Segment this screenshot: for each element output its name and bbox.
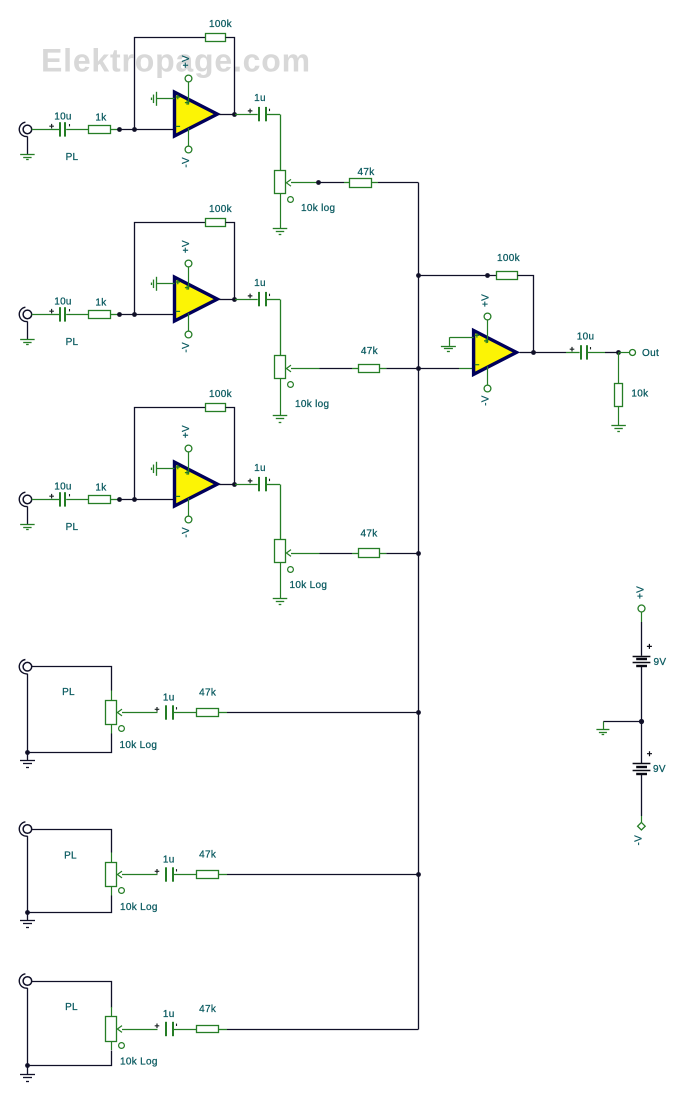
bus node channel 5	[416, 872, 421, 877]
capacitor C1a 10u	[49, 122, 88, 136]
wire VR1 to ground	[280, 193, 282, 229]
svg-text:1k: 1k	[95, 483, 107, 494]
svg-text:Elektropage.com: Elektropage.com	[41, 43, 311, 79]
svg-text:47k: 47k	[360, 529, 378, 540]
svg-text:9V: 9V	[654, 657, 667, 668]
svg-text:+V: +V	[181, 55, 192, 68]
svg-text:+V: +V	[181, 425, 192, 438]
input jack J3	[19, 492, 31, 506]
U3 non-inverting input ground	[152, 462, 175, 476]
wire VR3 to ground	[280, 562, 282, 598]
svg-text:PL: PL	[65, 1002, 78, 1013]
U2 +V supply pin	[185, 260, 192, 290]
wire VR6 wiper to C6	[122, 1029, 158, 1031]
svg-text:100k: 100k	[209, 204, 233, 215]
resistor R2a 1k	[89, 311, 111, 319]
node B1 junction	[132, 127, 137, 132]
wire R3c to summing bus	[380, 553, 419, 555]
input jack J2	[19, 307, 31, 321]
ground node of J6	[25, 1063, 30, 1068]
svg-text:1u: 1u	[254, 463, 266, 474]
U1 input polarity marks	[176, 95, 190, 127]
wire C2b to VR2	[280, 300, 282, 356]
resistor R5 47k	[197, 871, 219, 879]
resistor R2b 100k feedback	[206, 219, 226, 227]
svg-text:+V: +V	[480, 294, 491, 307]
svg-text:10k: 10k	[631, 389, 649, 400]
U1 -V supply pin	[185, 128, 192, 153]
lead into VR4	[111, 691, 113, 701]
feedback wire to U3 output	[226, 408, 235, 485]
svg-text:10k Log: 10k Log	[120, 1057, 158, 1068]
wire bus to U4 inverting input	[418, 368, 475, 370]
ground of R11	[611, 425, 626, 427]
wire to R2c	[320, 368, 359, 370]
input jack J4	[19, 660, 31, 674]
wire J6 to VR6	[32, 982, 112, 1008]
battery B1 9V	[633, 657, 651, 667]
U2 input polarity marks	[176, 280, 190, 312]
svg-text:-V: -V	[181, 527, 192, 538]
svg-text:1u: 1u	[254, 93, 266, 104]
resistor R3c 47k	[359, 549, 380, 558]
wire node to R11	[618, 352, 620, 384]
wire R2a to node A2	[111, 314, 135, 316]
svg-text:Out: Out	[642, 348, 659, 359]
wire VR4 wiper to C4	[122, 712, 158, 714]
wire midpoint to ground	[603, 721, 641, 723]
wire C3b to VR3	[280, 485, 282, 540]
ground node of J5	[25, 910, 30, 915]
wire J5 to VR5	[32, 830, 112, 853]
wire VR1 wiper to R1c	[291, 182, 319, 184]
svg-text:1u: 1u	[163, 693, 175, 704]
feedback wire of U2	[135, 223, 206, 315]
resistor R3b 100k feedback	[206, 404, 226, 412]
feedback junction node	[485, 273, 490, 278]
svg-text:10k log: 10k log	[295, 399, 329, 410]
U1 non-inverting input ground	[152, 92, 175, 106]
wire U4 output to node	[520, 352, 534, 354]
U4 -V supply pin	[484, 366, 491, 392]
svg-text:+V: +V	[636, 586, 647, 599]
input jack J1	[19, 122, 31, 136]
U1 +V supply pin	[185, 75, 192, 105]
wire VR3 wiper to R3c	[291, 553, 320, 555]
U3 +V supply pin	[185, 445, 192, 475]
capacitor C3a 10u	[49, 492, 88, 506]
wire B1 to midpoint	[641, 667, 643, 722]
U3 input polarity marks	[176, 465, 190, 497]
svg-text:100k: 100k	[497, 253, 521, 264]
node A3 junction	[117, 497, 122, 502]
wire VR5 bottom to ground loop	[28, 836, 112, 913]
battery B2 9V	[633, 722, 651, 774]
op-amp U3	[175, 462, 218, 506]
wire R5 to summing bus	[219, 874, 419, 876]
svg-text:1u: 1u	[254, 278, 266, 289]
ground of J5 loop	[20, 913, 35, 928]
potentiometer VR6 10k	[106, 1017, 125, 1049]
svg-text:47k: 47k	[357, 167, 375, 178]
resistor R11 10k	[615, 384, 623, 407]
wire to C7	[534, 352, 566, 354]
capacitor C2a 10u	[49, 307, 88, 321]
wire to R3c	[320, 553, 359, 555]
bus node feedback	[416, 273, 421, 278]
wire node B3 to U3 inverting input	[135, 499, 177, 501]
svg-text:10u: 10u	[54, 481, 72, 492]
resistor R2c 47k	[359, 365, 380, 373]
ground of J1	[20, 137, 35, 160]
U2 -V supply pin	[185, 313, 192, 338]
resistor R1c 47k	[350, 179, 372, 188]
svg-text:10k log: 10k log	[301, 203, 335, 214]
U2 non-inverting input ground	[152, 277, 175, 291]
svg-text:10k Log: 10k Log	[290, 580, 328, 591]
U4 +V supply pin	[484, 313, 491, 343]
capacitor C6 1u	[155, 1022, 197, 1036]
resistor R6 47k	[197, 1026, 219, 1033]
svg-text:+V: +V	[181, 240, 192, 253]
plus mark of B1	[647, 644, 652, 649]
svg-text:10k Log: 10k Log	[120, 740, 158, 751]
svg-text:100k: 100k	[209, 19, 233, 30]
potentiometer VR2 10k	[275, 356, 294, 388]
potentiometer VR3 10k	[275, 540, 294, 573]
plus mark of B2	[647, 751, 652, 756]
supply midpoint node	[639, 719, 644, 724]
ground of J6 loop	[20, 1066, 35, 1082]
input jack J6	[19, 974, 31, 988]
wire U1 output to node C1	[219, 114, 235, 116]
ground of J4 loop	[20, 752, 35, 768]
wire VR2 wiper to R2c	[291, 368, 320, 370]
resistor R4 47k	[197, 709, 219, 717]
lead into VR5	[111, 853, 113, 863]
wire to Out terminal	[619, 352, 629, 354]
wire VR4 bottom to ground loop	[28, 674, 112, 753]
wire node B1 to U1 inverting input	[135, 129, 177, 131]
wiper node of VR1	[316, 180, 321, 185]
op-amp U4	[474, 331, 517, 375]
ground of VR2	[273, 415, 288, 417]
capacitor C4 1u	[155, 705, 197, 719]
wire R3a to node A3	[111, 499, 135, 501]
svg-text:10u: 10u	[54, 111, 72, 122]
svg-text:1u: 1u	[163, 1009, 175, 1020]
lead into VR6	[111, 1007, 113, 1017]
input jack J5	[19, 822, 31, 836]
feedback wire to U1 output	[226, 38, 235, 115]
potentiometer VR4 10k	[106, 701, 125, 732]
wire R4 to summing bus	[219, 712, 419, 714]
wire VR2 to ground	[280, 379, 282, 416]
wire VR5 wiper to C5	[122, 874, 158, 876]
svg-text:1k: 1k	[95, 113, 107, 124]
svg-text:-V: -V	[634, 835, 645, 846]
svg-text:10k Log: 10k Log	[120, 902, 158, 913]
output node of U1	[232, 112, 237, 117]
svg-text:1u: 1u	[163, 855, 175, 866]
feedback wire bus to R10	[418, 275, 496, 277]
summing bus wire	[418, 183, 420, 1030]
output node of U2	[232, 297, 237, 302]
wire J2 to C2a	[32, 314, 52, 316]
op-amp U2	[175, 277, 218, 321]
U4 input polarity marks	[475, 333, 489, 365]
op-amp U1	[175, 92, 218, 136]
wire VR6 bottom to ground loop	[28, 988, 112, 1066]
wire R1c to summing bus	[371, 182, 418, 184]
+V supply terminal	[638, 605, 645, 612]
svg-text:PL: PL	[66, 152, 79, 163]
svg-text:PL: PL	[64, 851, 77, 862]
svg-text:-V: -V	[480, 395, 491, 406]
feedback wire of U3	[135, 408, 206, 500]
wire to R1c	[319, 182, 350, 184]
U4 non-inverting input ground	[441, 337, 474, 351]
ground of J3	[20, 507, 35, 530]
output node of U3	[232, 482, 237, 487]
node B2 junction	[132, 312, 137, 317]
wire C1b to VR1	[280, 115, 282, 171]
svg-text:1k: 1k	[95, 298, 107, 309]
svg-text:PL: PL	[66, 337, 79, 348]
resistor R10 100k feedback	[497, 272, 518, 280]
feedback wire of U1	[135, 38, 206, 130]
node B3 junction	[132, 497, 137, 502]
bus node channel 2	[416, 366, 421, 371]
bus node channel 3	[416, 551, 421, 556]
wire U3 output to node C3	[219, 484, 235, 486]
U4 output node	[531, 350, 536, 355]
wire node B2 to U2 inverting input	[135, 314, 177, 316]
capacitor C2b 1u	[235, 292, 280, 306]
svg-text:-V: -V	[181, 157, 192, 168]
resistor R3a 1k	[89, 496, 111, 504]
wire R6 to summing bus	[219, 1029, 419, 1031]
svg-text:47k: 47k	[361, 346, 379, 357]
svg-text:47k: 47k	[199, 1004, 217, 1015]
Out terminal	[630, 350, 636, 356]
wire +V terminal to battery B1	[641, 612, 643, 655]
feedback wire to U4 output	[518, 276, 534, 353]
svg-text:PL: PL	[66, 522, 79, 533]
wire R11 to ground	[618, 407, 620, 426]
wire U2 output to node C2	[219, 299, 235, 301]
node A2 junction	[117, 312, 122, 317]
svg-text:100k: 100k	[209, 389, 233, 400]
-V supply terminal	[638, 822, 646, 830]
svg-text:10u: 10u	[54, 296, 72, 307]
bus node channel 4	[416, 710, 421, 715]
wire R2c to summing bus	[380, 368, 419, 370]
feedback wire to U2 output	[226, 223, 235, 300]
svg-text:-V: -V	[181, 342, 192, 353]
ground of VR3	[273, 598, 288, 600]
potentiometer VR5 10k	[106, 863, 125, 894]
wire J1 to C1a	[32, 129, 52, 131]
output node	[616, 350, 621, 355]
ground of VR1	[273, 228, 288, 230]
wire J4 to VR4	[32, 667, 112, 691]
node A1 junction	[117, 127, 122, 132]
capacitor C1b 1u	[235, 107, 280, 121]
wire C7 to output node	[605, 352, 619, 354]
resistor R1b 100k feedback	[206, 34, 226, 42]
svg-text:47k: 47k	[199, 688, 217, 699]
capacitor C5 1u	[155, 867, 197, 881]
svg-text:10u: 10u	[577, 331, 595, 342]
ground node of J4	[25, 750, 30, 755]
svg-text:47k: 47k	[199, 850, 217, 861]
wire J3 to C3a	[32, 499, 52, 501]
svg-text:PL: PL	[62, 687, 75, 698]
capacitor C3b 1u	[235, 477, 280, 491]
supply ground	[596, 722, 609, 735]
wire R1a to node A1	[111, 129, 135, 131]
capacitor C7 10u	[566, 345, 605, 359]
U3 -V supply pin	[185, 498, 192, 523]
resistor R1a 1k	[89, 126, 111, 134]
potentiometer VR1 10k	[275, 171, 294, 203]
svg-text:9V: 9V	[653, 764, 666, 775]
wire B2 to -V terminal	[641, 775, 643, 822]
ground of J2	[20, 322, 35, 345]
